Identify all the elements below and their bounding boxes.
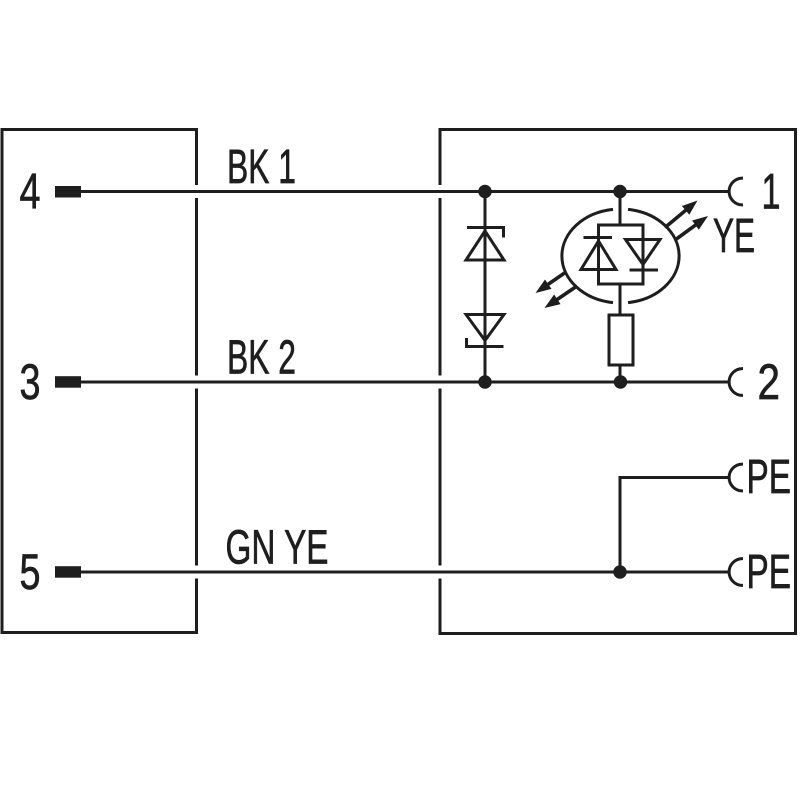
pin 3 label (20, 354, 41, 410)
terminal pin 5 (55, 566, 81, 578)
label PE upper (747, 451, 792, 504)
svg-text:2: 2 (758, 354, 781, 410)
svg-text:PE: PE (747, 451, 792, 504)
junction dot BK2 suppressor (478, 375, 492, 389)
svg-text:3: 3 (20, 354, 41, 410)
LED diode right (down) (626, 240, 661, 271)
svg-text:GN YE: GN YE (226, 522, 329, 575)
socket contact PE upper (729, 464, 743, 491)
junction dot GN YE (613, 565, 627, 579)
right connector box (440, 130, 796, 634)
wire BK1 (81, 190, 729, 193)
LED emission arrow upper-right 2 (675, 216, 708, 240)
zener diode D1 (466, 228, 504, 261)
label contact 2 (758, 354, 781, 410)
label contact 1 (762, 164, 781, 220)
wire resistor to BK2 (619, 365, 622, 382)
LED emission arrow upper-right 1 (665, 201, 698, 228)
resistor R1 (609, 315, 633, 365)
socket contact PE lower (729, 559, 743, 586)
svg-text:4: 4 (20, 164, 41, 220)
socket contact 1 (729, 178, 743, 205)
svg-text:PE: PE (747, 546, 792, 599)
wire LED stub top (619, 192, 622, 226)
wire PE riser (620, 478, 729, 573)
terminal pin 3 (55, 376, 81, 388)
junction dot BK1 suppressor (478, 185, 492, 199)
left connector box (2, 130, 197, 633)
LED inner frame (599, 225, 644, 284)
pin 5 label (20, 544, 41, 600)
wire LED stub bottom (619, 284, 622, 315)
LED emission arrow lower-left 2 (545, 286, 578, 308)
label BK 2 (227, 332, 296, 385)
svg-text:BK 2: BK 2 (227, 332, 296, 385)
zener diode D2 (466, 315, 504, 347)
svg-text:BK 1: BK 1 (227, 141, 296, 194)
svg-text:5: 5 (20, 544, 41, 600)
svg-text:YE: YE (713, 210, 755, 263)
label GN YE (226, 522, 329, 575)
label PE lower (747, 546, 792, 599)
junction dot BK1 LED (613, 185, 627, 199)
socket contact 2 (729, 369, 743, 396)
svg-text:1: 1 (762, 164, 781, 220)
wire suppressor branch (484, 192, 487, 383)
label BK 1 (227, 141, 296, 194)
wire BK2 (81, 381, 729, 384)
wire GN YE (81, 571, 729, 574)
label YE (713, 210, 755, 263)
junction dot BK2 resistor (614, 375, 628, 389)
LED diode left (up) (581, 238, 616, 270)
terminal pin 4 (55, 186, 81, 198)
pin 4 label (20, 164, 41, 220)
LED envelope ellipse (562, 209, 679, 302)
LED emission arrow lower-left 1 (536, 272, 567, 293)
